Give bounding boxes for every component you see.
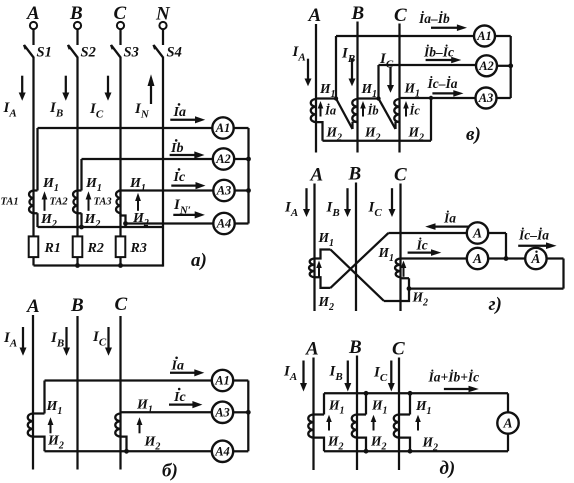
arrow Ic-Ia v — [432, 90, 463, 97]
transformer CT-B coil d — [352, 415, 357, 438]
ammeter A1 b — [212, 370, 233, 391]
transformer TA1 coil — [29, 191, 33, 214]
wire right bus v — [510, 36, 512, 98]
SCHEME-B — [3, 294, 251, 482]
ammeter A3 dotted g — [525, 248, 546, 269]
arrow IN' — [173, 211, 205, 218]
riser I1-B v — [377, 65, 379, 99]
node N terminal — [159, 22, 166, 29]
riser CT-A b — [43, 381, 45, 414]
arrow TA2 secondary — [86, 191, 92, 211]
junction I2-C g — [407, 286, 412, 291]
arrow IA b — [20, 327, 27, 356]
wire phase A v — [315, 24, 317, 153]
ammeter A3 — [213, 180, 234, 201]
svg-text:TA3: TA3 — [94, 197, 112, 208]
svg-text:A: A — [308, 5, 322, 26]
svg-text:г): г) — [489, 294, 502, 315]
svg-text:A4: A4 — [214, 445, 230, 459]
arrow CT-B secondary d — [371, 415, 377, 431]
wire phase B upper — [76, 29, 78, 45]
svg-text:R1: R1 — [44, 241, 61, 256]
wire phase B b — [76, 316, 78, 470]
diagonal I1-B to I2-C v — [379, 99, 396, 130]
wire phase C d — [398, 358, 400, 471]
wire CT-A jog top b — [33, 412, 45, 414]
wire I1-C to A2 g — [401, 257, 467, 259]
wire R3 bottom — [119, 257, 121, 265]
wire Ia to A1 — [38, 127, 213, 129]
switch S3 — [111, 45, 120, 57]
switch S1 — [24, 45, 33, 57]
wire phase A g — [313, 184, 315, 312]
svg-text:İc–İa: İc–İa — [518, 228, 549, 243]
arrow Ic b — [169, 401, 202, 408]
wire Ic to A3 — [119, 189, 214, 191]
svg-text:R3: R3 — [130, 241, 147, 256]
svg-text:A: A — [305, 339, 319, 360]
svg-text:N: N — [155, 4, 171, 25]
wire TA3 I2 step — [121, 213, 126, 227]
riser bus to A3 wire v — [430, 98, 432, 141]
wire A3 to bus — [235, 189, 249, 191]
junction I1-A v — [334, 96, 338, 100]
svg-text:A2: A2 — [478, 59, 494, 73]
wire Ib to A2 — [82, 158, 213, 160]
arrow IC — [105, 76, 112, 101]
wire phase B d — [356, 356, 358, 471]
svg-text:A: A — [530, 251, 540, 266]
junction I2-C d — [408, 449, 413, 454]
wire I1-B horizontal v — [358, 97, 379, 99]
wire IN' to A4 — [126, 222, 214, 224]
arrow IC b — [105, 327, 112, 356]
svg-text:İa: İa — [443, 211, 456, 226]
svg-text:A: A — [472, 226, 482, 241]
arrow IA — [19, 76, 26, 101]
ammeter A2 — [213, 148, 234, 169]
svg-text:İb–İc: İb–İc — [423, 45, 454, 60]
wire phase A upper — [32, 29, 34, 45]
wire R1 bottom — [32, 257, 34, 265]
svg-text:Ib: Ib — [170, 141, 183, 156]
svg-text:S1: S1 — [37, 45, 52, 61]
wire I1-A flag g — [315, 250, 331, 259]
wire A4 to bus — [235, 222, 249, 224]
wire A3 to bus v — [497, 97, 511, 99]
transformer CT-A coil g — [309, 259, 314, 278]
arrow TA1 secondary — [42, 191, 48, 211]
ammeter A d — [497, 412, 518, 433]
arrow Ia+Ib+Ic d — [444, 386, 479, 393]
wire TA2 jogs — [78, 191, 82, 214]
SCHEME-A — [1, 3, 251, 271]
label Ia — [173, 103, 186, 120]
riser CT-A d — [314, 393, 325, 414]
junction A1 drop g — [504, 256, 509, 261]
wire TA2 I2 stub — [80, 213, 82, 227]
arrow Ia left g — [425, 223, 473, 230]
wire I2 bus d — [324, 450, 508, 452]
ammeter A1 v — [474, 26, 495, 47]
wire CT-A I2 step b — [33, 437, 45, 452]
ammeter A2 v — [476, 55, 497, 76]
svg-text:İa: İa — [324, 104, 336, 118]
wire ammeter to I2 bus d — [507, 434, 509, 452]
wire to A2 v — [379, 64, 477, 66]
svg-text:A3: A3 — [216, 184, 232, 198]
wire I2-B stub v — [353, 122, 358, 129]
transformer CT-C coil b — [115, 414, 120, 437]
node B terminal — [74, 22, 81, 29]
riser CT-C d — [399, 393, 410, 414]
ammeter A2 g — [467, 248, 488, 269]
arrow IA g — [303, 188, 310, 217]
svg-text:а): а) — [191, 250, 207, 271]
svg-text:A: A — [26, 296, 40, 317]
arrow CT-B secondary v — [360, 101, 366, 117]
wire phase B v — [356, 22, 358, 153]
junction I1-C d — [408, 391, 413, 396]
wire CT-B I2 step d — [357, 438, 366, 452]
junction bus A3 — [246, 188, 251, 193]
wire phase C g — [399, 184, 401, 312]
arrow IB — [62, 76, 69, 101]
wire phase B g — [355, 183, 357, 312]
svg-text:Ic: Ic — [173, 170, 186, 185]
svg-text:Ic: Ic — [173, 390, 186, 405]
svg-text:İa+İb+İc: İa+İb+İc — [428, 370, 480, 385]
svg-text:A: A — [26, 3, 40, 24]
svg-text:B: B — [348, 164, 362, 185]
label Ic b — [173, 388, 186, 405]
diagonal I1-A to I2-C g — [330, 250, 384, 302]
wire right bus — [247, 128, 249, 224]
wire right bus b — [247, 381, 249, 452]
arrow CT-A secondary b — [48, 417, 54, 433]
svg-text:C: C — [114, 3, 127, 24]
wire bus to ammeter d — [507, 393, 509, 412]
arrow IC d — [388, 361, 395, 392]
resistor R2 — [73, 236, 83, 257]
label Ib — [170, 139, 183, 156]
wire phase A b — [32, 315, 34, 470]
arrow Ib — [170, 151, 205, 158]
wire A1 right g — [488, 233, 506, 259]
svg-text:A1: A1 — [214, 374, 230, 388]
svg-text:TA1: TA1 — [1, 197, 19, 208]
SCHEME-D — [283, 337, 519, 479]
wire phase C b — [119, 316, 121, 470]
arrow Ib-Ic v — [426, 57, 462, 64]
wire TA1 jogs — [34, 191, 38, 214]
transformer TA2 coil — [73, 191, 77, 214]
arrow Ia b — [170, 369, 204, 376]
wire CT-C I2 step d — [399, 438, 410, 452]
junction I1-B d — [364, 391, 369, 396]
svg-text:İa–İb: İa–İb — [418, 11, 450, 26]
svg-text:S3: S3 — [124, 45, 139, 61]
wire Ia to A1 g — [388, 232, 466, 234]
svg-text:B: B — [348, 337, 362, 358]
wire A2 to bus v — [497, 65, 511, 67]
wire A1 to bus b — [233, 379, 248, 381]
svg-text:A1: A1 — [476, 29, 492, 43]
svg-text:B: B — [351, 3, 365, 24]
svg-text:C: C — [394, 5, 407, 26]
junction I2-B d — [364, 449, 369, 454]
arrow CT-C secondary d — [415, 415, 421, 431]
wire CT-C I2 step b — [121, 437, 127, 452]
arrow IC g — [389, 188, 396, 217]
svg-text:S4: S4 — [167, 45, 182, 61]
arrow CT-C secondary b — [137, 417, 143, 433]
transformer CT-C coil v — [394, 99, 399, 122]
wire CT-A I2 step d — [314, 438, 325, 452]
ammeter A4 b — [212, 441, 233, 462]
arrow IN up — [148, 74, 155, 104]
arrow Ic — [171, 182, 205, 189]
wire A1 to bus — [234, 127, 249, 129]
svg-text:A3: A3 — [478, 91, 494, 105]
resistor R3 — [116, 236, 126, 257]
wire phase C main — [119, 57, 121, 237]
svg-text:A4: A4 — [216, 217, 232, 231]
arrow Ic g — [408, 249, 442, 256]
wire phase B main — [76, 57, 78, 237]
svg-text:R2: R2 — [87, 241, 104, 256]
svg-text:C: C — [115, 294, 128, 315]
wire bottom return g — [409, 287, 564, 289]
svg-text:İc: İc — [409, 104, 421, 118]
wire phase N main — [162, 57, 164, 267]
arrow CT-A secondary v — [318, 101, 324, 117]
junction CT-C I2 b — [124, 449, 129, 454]
wire bottom neutral bus — [34, 264, 164, 266]
junction TA3 I2 — [123, 221, 128, 226]
arrow IB d — [344, 361, 351, 392]
junction R3 bus — [118, 263, 123, 268]
svg-text:TA2: TA2 — [50, 197, 69, 208]
svg-text:B: B — [69, 3, 83, 24]
arrow CT-A secondary g — [316, 261, 322, 277]
svg-text:в): в) — [466, 124, 481, 145]
wire I2 bus — [38, 226, 164, 228]
svg-text:C: C — [394, 165, 407, 186]
wire phase N upper — [162, 29, 164, 45]
arrow Ia — [170, 116, 205, 123]
svg-text:İc–İa: İc–İa — [427, 76, 458, 91]
wire bottom bus v — [323, 140, 432, 142]
svg-text:A: A — [502, 416, 512, 431]
wire I2-A jog v — [316, 122, 323, 141]
ammeter A3 b — [212, 402, 233, 423]
node C terminal — [117, 22, 124, 29]
wire TA1 I2 stub — [36, 213, 38, 227]
wire Ic to A3 b — [121, 411, 212, 413]
svg-text:İc: İc — [416, 238, 428, 253]
wire phase C v — [398, 24, 400, 153]
arrow IC v — [387, 67, 394, 93]
transformer CT-A coil d — [308, 415, 313, 438]
wire I1-C to A3 v — [400, 97, 476, 99]
transformer CT-A coil b — [28, 414, 33, 437]
svg-text:A: A — [472, 251, 482, 266]
wire A1 to bus v — [495, 35, 511, 37]
wire phase C upper — [119, 29, 121, 45]
transformer CT-C coil g — [395, 259, 400, 278]
wire I2-A flag g — [315, 277, 331, 288]
transformer TA3 coil — [116, 191, 120, 214]
arrow CT-A secondary d — [326, 415, 332, 431]
arrow CT-C secondary g — [401, 261, 407, 277]
wire bottom bus to A4 b — [45, 450, 212, 452]
diagonal I1-A to I2-B v — [336, 99, 353, 130]
svg-text:д): д) — [440, 458, 456, 479]
junction A3 wire v — [429, 96, 433, 100]
arrow IB v — [349, 59, 356, 86]
transformer CT-B coil v — [352, 99, 357, 122]
arrow CT-C secondary v — [403, 101, 409, 117]
arrow IB g — [344, 188, 351, 217]
wire I1-A horizontal v — [316, 97, 336, 99]
junction bus A3 b — [246, 410, 251, 415]
arrow TA3 secondary — [135, 193, 141, 211]
wire I2-C stub v — [396, 122, 400, 129]
svg-text:б): б) — [162, 461, 178, 482]
junction bus A2 — [246, 157, 251, 162]
junction bus A2 v — [508, 63, 513, 68]
label Ic — [173, 168, 186, 185]
ammeter A1 — [212, 117, 233, 138]
wire A4 to bus b — [233, 450, 248, 452]
switch S4 — [154, 45, 163, 57]
junction TA2 I2 bus — [79, 225, 84, 230]
ammeter A3 v — [476, 88, 497, 109]
svg-text:C: C — [392, 339, 405, 360]
wire A3 to bus b — [233, 411, 248, 413]
wire I1 bus d — [324, 392, 508, 394]
wire to A1 v — [336, 35, 474, 37]
svg-text:S2: S2 — [81, 45, 96, 61]
transformer CT-A coil v — [311, 99, 316, 122]
svg-text:Ia: Ia — [171, 359, 184, 374]
svg-text:A2: A2 — [215, 152, 231, 166]
riser TA1 — [36, 128, 38, 191]
riser I1-A v — [335, 36, 337, 99]
node A terminal — [30, 22, 37, 29]
ammeter A1 g — [467, 222, 488, 243]
transformer CT-C coil d — [394, 415, 399, 438]
riser CT-B d — [357, 393, 366, 414]
resistor R1 — [29, 236, 39, 257]
wire A2 to bus — [234, 158, 248, 160]
svg-text:A1: A1 — [215, 121, 231, 135]
junction I1-B v — [376, 96, 380, 100]
svg-text:İb: İb — [367, 104, 379, 118]
svg-text:A: A — [310, 165, 324, 186]
arrow IA d — [300, 361, 307, 392]
switch S2 — [68, 45, 77, 57]
svg-text:Ia: Ia — [173, 105, 186, 120]
wire I2-C link g — [384, 278, 409, 301]
wire phase A main — [32, 57, 34, 237]
wire R2 bottom — [76, 257, 78, 265]
label Ia b — [171, 357, 184, 374]
arrow IB b — [63, 327, 70, 356]
svg-text:B: B — [70, 295, 84, 316]
wire phase A d — [312, 358, 314, 471]
arrow Ia-Ib v — [431, 24, 467, 31]
arrow IA v — [305, 59, 312, 86]
wire A2 to A3 g — [488, 257, 525, 259]
diagonal I2-A to Ia wire g — [330, 233, 388, 288]
riser TA2 — [80, 159, 82, 191]
SCHEME-G — [284, 164, 564, 316]
wire right bus g — [547, 259, 564, 289]
arrow Ic-Ia g — [518, 242, 556, 249]
SCHEME-V — [292, 3, 514, 153]
junction R2 bus — [75, 263, 80, 268]
ammeter A4 — [213, 213, 234, 234]
wire Ia to A1 b — [45, 379, 212, 381]
svg-text:A3: A3 — [214, 406, 230, 420]
